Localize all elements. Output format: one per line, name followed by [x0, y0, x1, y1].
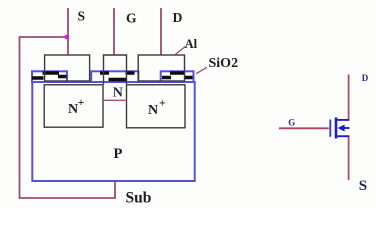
SiO2 oxide segment 2	[91, 71, 138, 82]
wire substrate-to-source connection	[20, 37, 116, 198]
svg-text:Sub: Sub	[126, 190, 152, 207]
G metal contact	[104, 55, 127, 85]
svg-text:N: N	[148, 103, 158, 118]
wire S terminal lead	[67, 8, 69, 55]
transistor symbol: body connection	[344, 127, 349, 129]
wire D terminal lead	[160, 8, 162, 55]
SiO2 oxide segment 3	[161, 71, 194, 82]
transistor symbol: gate bar	[329, 120, 331, 137]
svg-text:N: N	[113, 86, 123, 101]
SiO2 oxide segment 1	[32, 71, 67, 82]
transistor symbol: source connection	[336, 135, 349, 137]
N+ source region	[44, 85, 103, 127]
svg-text:S: S	[78, 9, 86, 24]
transistor symbol: channel bar	[335, 118, 338, 139]
transistor symbol: gate lead	[279, 127, 329, 129]
transistor symbol: drain lead	[348, 75, 350, 121]
node junction dot on S lead	[65, 35, 70, 40]
svg-text:D: D	[362, 73, 369, 83]
S metal contact	[45, 55, 90, 81]
transistor symbol: body arrow	[338, 125, 345, 132]
svg-text:Al: Al	[185, 37, 198, 51]
D metal contact	[138, 55, 184, 81]
svg-text:D: D	[173, 10, 183, 25]
P substrate body	[32, 82, 194, 181]
wire G terminal lead	[113, 8, 115, 55]
transistor symbol: source lead	[348, 136, 350, 180]
Al metallization hatch under S	[32, 73, 67, 78]
svg-text:N: N	[68, 102, 78, 117]
svg-text:P: P	[114, 146, 123, 162]
Al pointer line	[175, 47, 185, 55]
svg-text:G: G	[126, 10, 137, 25]
N+ drain region	[127, 85, 186, 128]
Al metallization hatch under D	[162, 73, 193, 78]
Al metallization hatch under G	[100, 73, 135, 80]
transistor symbol: drain connection	[336, 119, 349, 121]
svg-text:SiO2: SiO2	[209, 56, 239, 71]
svg-text:+: +	[159, 98, 166, 110]
N channel bottom boundary	[103, 99, 126, 101]
svg-text:S: S	[359, 178, 367, 194]
SiO2 pointer line	[196, 67, 207, 73]
svg-text:+: +	[78, 97, 85, 109]
svg-text:G: G	[288, 118, 295, 128]
